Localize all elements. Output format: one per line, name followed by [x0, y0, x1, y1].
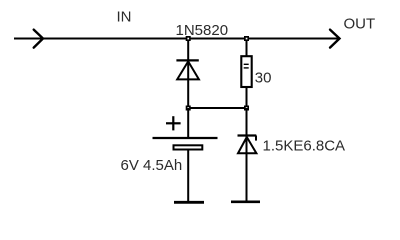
svg-text:1N5820: 1N5820 — [176, 22, 229, 39]
svg-text:IN: IN — [117, 9, 132, 26]
node C (junction row / battery branch) — [186, 106, 191, 111]
wire: TVS branch from junction through TVS to ground — [246, 108, 248, 201]
wire: R branch from rail through resistor to lower junction — [246, 39, 248, 109]
wire: battery branch lower (box plate to ground) — [187, 151, 189, 202]
wire: main IN-OUT rail — [14, 38, 339, 40]
node D (junction row / TVS branch) — [244, 106, 249, 111]
diode D1 1N5820 (cathode bar + triangle) — [176, 60, 199, 79]
wire: junction row connecting D1 bottom to R1 bottom — [188, 107, 246, 109]
svg-text:1.5KE6.8CA: 1.5KE6.8CA — [263, 138, 346, 155]
OUT direction arrowhead — [330, 30, 340, 48]
TVS diode D2 1.5KE6.8CA (bar with hooked end + triangle) — [238, 136, 257, 154]
battery BT1 (plus sign, long plate, short box plate) — [153, 116, 218, 149]
ground (TVS side) — [231, 201, 260, 204]
wire: D1 branch from rail through diode to lower junction — [187, 39, 189, 109]
resistor R1 30 ohm (box with inner marks) — [241, 56, 251, 87]
node B (rail / R1 junction) — [244, 36, 249, 41]
node A (rail / D1 junction) — [186, 36, 191, 41]
ground (battery side) — [174, 201, 204, 204]
IN direction arrowhead — [34, 30, 43, 48]
svg-text:6V 4.5Ah: 6V 4.5Ah — [121, 157, 183, 174]
svg-text:30: 30 — [255, 70, 272, 87]
svg-text:OUT: OUT — [344, 16, 376, 33]
wire: battery branch upper (junction to + plate) — [187, 108, 189, 138]
